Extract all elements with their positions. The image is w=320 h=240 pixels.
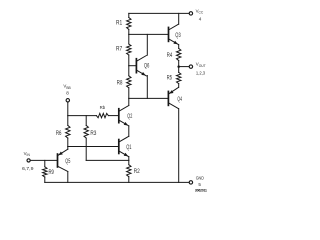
wire: to VOUT terminal	[179, 66, 189, 68]
svg-text:R7: R7	[116, 47, 123, 53]
transistor Q4	[168, 87, 178, 108]
resistor R1	[127, 13, 131, 34]
resistor R4	[177, 45, 181, 67]
resistor RB	[96, 113, 118, 117]
resistor R2	[127, 160, 131, 182]
resistor R7	[127, 34, 131, 65]
terminal GND pin 5	[189, 181, 192, 184]
terminal VCC pin 4	[189, 12, 192, 15]
svg-text:6,7,9: 6,7,9	[22, 166, 34, 171]
svg-text:R3: R3	[90, 131, 97, 137]
svg-text:4: 4	[199, 16, 202, 21]
transistor Q3	[169, 24, 179, 44]
wire: R3 drop to Q1 emitter node	[85, 138, 87, 160]
wire: Q1 emitter stub to node	[128, 157, 130, 161]
resistor R6	[66, 116, 70, 147]
svg-text:3062011: 3062011	[195, 188, 207, 192]
transistor Q5	[58, 147, 68, 172]
terminal VBB pin 8	[66, 99, 69, 102]
svg-text:Q4: Q4	[177, 97, 182, 103]
svg-text:R5: R5	[167, 76, 173, 82]
svg-text:Q1: Q1	[126, 145, 132, 151]
wire: Q3 collector to VCC rail	[178, 13, 180, 24]
svg-text:5: 5	[198, 182, 201, 187]
terminal VIN pins 6,7,9	[27, 159, 30, 162]
svg-text:R9: R9	[49, 170, 55, 176]
svg-text:Rb: Rb	[100, 105, 106, 111]
svg-text:VOUT: VOUT	[196, 62, 206, 68]
transistor Q6	[136, 56, 146, 76]
svg-text:1,2,3: 1,2,3	[196, 70, 206, 75]
wire: node98 run to Q4 base	[129, 97, 169, 99]
resistor R9	[43, 160, 47, 182]
resistor R8	[127, 66, 131, 99]
svg-text:Q6: Q6	[144, 64, 150, 70]
wire: ground bus	[45, 181, 189, 183]
wire: node to Q3 base	[129, 33, 169, 35]
transistor Q2	[119, 106, 129, 126]
svg-text:R4: R4	[167, 53, 173, 59]
svg-text:Q5: Q5	[65, 159, 71, 165]
wire: base rail to Q1	[68, 146, 119, 148]
svg-text:R8: R8	[117, 80, 123, 86]
wire: drop to Q6 collector	[146, 34, 148, 55]
svg-text:8: 8	[66, 91, 69, 96]
wire: VIN to Q5 base	[30, 159, 57, 161]
wire: Q4 collector to ground bus	[178, 109, 180, 183]
wire: VBB stem	[67, 102, 69, 116]
wire: Q2 emitter to Q1 collector	[128, 126, 130, 136]
terminal VOUT pins 1,2,3	[189, 65, 192, 68]
wire: VBB rail to RB	[68, 115, 97, 117]
svg-text:R1: R1	[116, 21, 123, 27]
svg-text:GND: GND	[196, 176, 204, 181]
resistor R5	[177, 67, 181, 88]
transistor Q1	[119, 136, 129, 156]
svg-text:VCC: VCC	[196, 8, 204, 14]
svg-text:R6: R6	[56, 131, 62, 137]
wire: Q6 base	[129, 65, 137, 67]
wire: VCC top rail	[129, 12, 189, 14]
svg-text:Q3: Q3	[175, 33, 181, 39]
svg-text:VBB: VBB	[63, 84, 71, 90]
svg-text:VIN: VIN	[24, 151, 31, 157]
wire: Q5 collector to bus	[67, 172, 69, 183]
wire: Q2 collector up to node98	[128, 98, 130, 105]
node: output junction	[177, 65, 180, 68]
svg-text:Q2: Q2	[127, 114, 132, 120]
resistor R3	[84, 116, 88, 139]
svg-text:R2: R2	[134, 169, 141, 175]
wire: Q6 emitter drop	[146, 76, 148, 99]
